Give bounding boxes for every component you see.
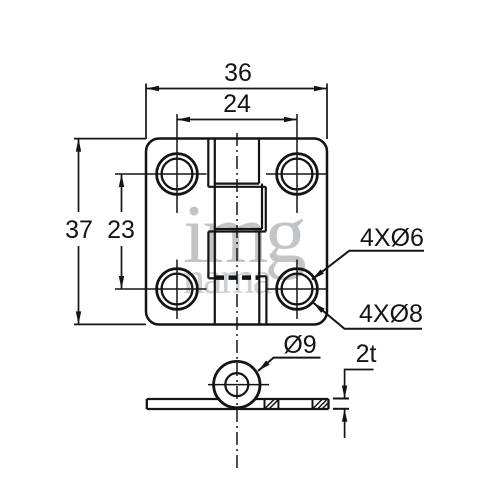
dimension 37 line upper xyxy=(78,139,80,212)
knuckle step 2 xyxy=(215,228,262,230)
svg-text:23: 23 xyxy=(107,216,135,244)
arrow leader d6 xyxy=(310,269,324,281)
leaf parting line right lower xyxy=(258,232,260,325)
leaf parting line left main xyxy=(214,139,216,325)
dimension 36 line xyxy=(146,88,327,90)
crosshair bottom-right hole xyxy=(266,260,328,320)
crosshair top-left hole xyxy=(115,114,207,213)
knuckle step 3 heavy dashed seam xyxy=(215,275,259,280)
crosshair bottom-left hole xyxy=(115,260,207,320)
svg-text:4XØ8: 4XØ8 xyxy=(359,300,423,328)
knuckle step 2 gap xyxy=(208,230,265,232)
arrowheads xyxy=(76,86,348,422)
dimension 37 line lower xyxy=(78,246,80,324)
dimension 36 extension right xyxy=(326,84,328,140)
leaf parting line right gap mid xyxy=(265,187,267,232)
leaf parting line right upper xyxy=(258,139,260,184)
dimension 23 line upper xyxy=(121,174,123,212)
hole bottom-right inner xyxy=(282,274,313,305)
dimension 37 extension bottom xyxy=(74,323,146,325)
arrow leader d9 xyxy=(256,360,269,373)
side view section boundary mid xyxy=(277,399,279,409)
knuckle step 3 jog right xyxy=(259,275,266,277)
arrow dim37 top xyxy=(76,139,81,152)
hole top-left outer xyxy=(157,154,198,195)
hole top-left inner xyxy=(162,159,193,190)
arrow dim24 left xyxy=(177,117,190,122)
hole top-right inner xyxy=(282,159,313,190)
dimension 37 extension top xyxy=(74,138,146,140)
side view plate top edge left xyxy=(147,398,219,400)
crosshair top-right hole xyxy=(266,114,328,213)
knuckle step 1 xyxy=(215,183,259,185)
side view plate bottom edge xyxy=(147,408,329,410)
arrow dim23 bottom xyxy=(119,276,124,289)
side view plate top edge right xyxy=(255,398,329,400)
dimension 2t extension bottom xyxy=(333,408,349,410)
dimension 2t extension top xyxy=(333,398,349,400)
side view plate left end xyxy=(146,399,148,409)
hatch area B xyxy=(314,400,329,409)
hole bottom-left outer xyxy=(157,269,198,310)
knuckle step 3 jog left xyxy=(208,277,214,279)
side view plate right end xyxy=(327,399,329,409)
arrow dim2t bottom xyxy=(342,409,347,422)
knuckle barrel outer xyxy=(214,361,260,407)
leaf parting line left gap lower xyxy=(207,232,209,279)
hole bottom-left inner xyxy=(162,274,193,305)
svg-text:4XØ6: 4XØ6 xyxy=(360,224,424,252)
svg-text:2t: 2t xyxy=(356,340,377,368)
arrow dim36 right xyxy=(314,86,327,91)
arrow dim24 right xyxy=(284,117,297,122)
leader 4xd8 xyxy=(313,303,422,329)
side view section boundary left xyxy=(264,399,266,409)
dimension 24 line xyxy=(177,119,297,121)
dimension 23 line lower xyxy=(121,246,123,289)
leader 4xd6 xyxy=(312,251,424,280)
arrow leader d8 xyxy=(311,300,324,312)
dimension texts xyxy=(65,59,424,368)
svg-text:Ø9: Ø9 xyxy=(283,331,316,359)
arrow dim37 bottom xyxy=(76,311,81,324)
hole bottom-right outer xyxy=(277,269,318,310)
leaf parting line right mid knuckle xyxy=(261,184,263,229)
arrow dim36 left xyxy=(146,86,159,91)
arrow dim2t top xyxy=(342,386,347,399)
side view section boundary right xyxy=(312,399,314,409)
hatch area A xyxy=(266,400,279,409)
svg-text:36: 36 xyxy=(224,59,252,87)
dimension 2t line below xyxy=(344,409,346,438)
leader d9 xyxy=(258,358,321,371)
arrow dim23 top xyxy=(119,174,124,187)
knuckle barrel crosshair xyxy=(208,384,269,386)
leaf parting line left gap upper xyxy=(207,139,209,187)
hole top-right outer xyxy=(277,154,318,195)
hinge body plate outline xyxy=(146,139,327,325)
svg-text:24: 24 xyxy=(223,90,251,118)
vertical centerline xyxy=(236,133,238,470)
dimension 2t line above xyxy=(345,370,374,399)
svg-text:37: 37 xyxy=(65,216,93,244)
knuckle barrel pin hole xyxy=(225,373,248,396)
dimension 36 extension left xyxy=(145,84,147,140)
knuckle step 1 gap xyxy=(208,186,265,188)
leaf parting line right gap lower xyxy=(265,276,267,324)
